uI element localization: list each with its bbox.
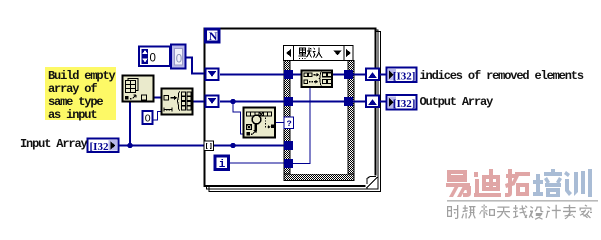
wire: 0 constant to Initialize Array size input <box>153 112 162 121</box>
case tunnel T2 <box>284 97 293 106</box>
wire: SR1 left to case tunnel T1 <box>220 74 284 76</box>
junction dot on input wire at x130 <box>127 143 132 148</box>
wire: Search 1D Array output to case selector terminal <box>275 122 284 124</box>
indices of removed elements label <box>420 69 583 83</box>
junction dot on SR2 wire at x233 <box>230 99 235 104</box>
indicator terminal I32 row2 <box>387 95 417 110</box>
tagline char 线 <box>513 205 528 218</box>
for loop echo frame 1 <box>207 30 379 189</box>
dog-ear fold at loop bottom-right corner <box>366 176 378 189</box>
wire: SR1R to indicator I32 row1 <box>380 74 387 76</box>
right shift register SR2R <box>365 95 380 109</box>
tagline char 计 <box>546 205 561 219</box>
wire: array constant to left shift register SR1 <box>185 57 204 73</box>
wire: icon A output to Initialize Array element input <box>154 97 161 99</box>
left shift register SR1 <box>205 68 220 82</box>
case selector label 默 glyph <box>299 48 312 60</box>
indicator terminal I32 row1 <box>387 68 417 83</box>
wire: case T4 to Build Array lower input <box>293 87 310 164</box>
case selector right divider <box>343 46 345 60</box>
wire: Build Array output to case tunnel RT1 <box>332 74 344 76</box>
logo char 迪 <box>474 169 501 197</box>
logo char 易 <box>446 170 471 197</box>
tagline char 家 <box>580 205 593 219</box>
yellow comment label <box>45 67 116 120</box>
case structure right border (hatched) <box>348 61 354 181</box>
case tunnel T4 <box>284 159 293 168</box>
right shift register SR1R <box>365 68 380 82</box>
wire: i terminal to case tunnel T4 <box>229 162 284 164</box>
junction dot on input wire at x233 <box>230 143 235 148</box>
Build Array function icon (inside case) <box>302 71 333 88</box>
case selector label 认 glyph <box>313 47 322 57</box>
wire: Initialize Array output to SR2 left <box>193 101 204 103</box>
icon A: empty array function <box>123 76 154 102</box>
case structure bottom border (hatched) <box>284 174 354 181</box>
tagline char 天 <box>497 207 510 219</box>
Input Array label <box>20 137 87 151</box>
case selector terminal ? <box>284 117 294 129</box>
Input Array control terminal I32 <box>88 139 119 153</box>
case structure inner area <box>290 61 347 174</box>
wire: RT1 to right shift register SR1R <box>353 74 366 76</box>
icon B: Initialize Array function <box>162 89 193 115</box>
loop input tunnel (auto-indexing) <box>204 141 214 151</box>
array constant container <box>139 47 170 67</box>
wire: RT2 to right shift register SR2R <box>353 101 366 103</box>
N count terminal <box>206 29 220 43</box>
wire: case T1 to Build Array input <box>293 74 301 76</box>
case structure left border (hatched) <box>284 61 290 181</box>
case tunnel RT2 <box>344 97 353 106</box>
wire: SR2 left to case tunnel T2 <box>220 101 284 103</box>
case selector decrement arrow <box>286 49 291 57</box>
logo char 训 <box>564 169 592 197</box>
case selector dropdown arrow <box>334 51 342 56</box>
tagline char 设 <box>529 206 544 220</box>
array constant element (empty, dimmed 0) <box>171 45 186 69</box>
i iteration terminal <box>215 156 229 171</box>
Output Array label <box>420 95 493 109</box>
case tunnel RT1 <box>344 70 353 79</box>
case tunnel T1 <box>284 70 293 79</box>
logo underline <box>447 200 598 202</box>
logo char 培 <box>533 169 562 197</box>
wire: input array main run <box>119 145 204 147</box>
wire: case T2 through case to RT2 <box>293 101 344 103</box>
for loop echo frame 2 <box>209 32 381 192</box>
tagline char 射 <box>447 205 458 219</box>
tagline RF and antenna design experts <box>447 205 592 220</box>
case tunnel T3 <box>284 141 293 150</box>
for loop main border <box>205 29 376 187</box>
Search 1D Array function icon <box>244 108 276 138</box>
logo char 拓 <box>505 169 530 197</box>
case structure selector frame <box>284 46 354 61</box>
left shift register SR2 <box>205 95 220 109</box>
tagline char 频 <box>461 205 476 219</box>
wire: staircase branch from SR2 wire into Search 1D Array <box>233 102 244 135</box>
wire: branch up to empty-array icon A <box>129 101 131 146</box>
tagline char 和 <box>479 205 495 219</box>
numeric constant 0 <box>143 111 153 125</box>
wire: SR2R to indicator I32 row2 <box>380 101 387 103</box>
tagline char 专 <box>563 205 576 220</box>
case selector increment arrow <box>346 49 351 57</box>
case selector left divider <box>293 46 295 60</box>
